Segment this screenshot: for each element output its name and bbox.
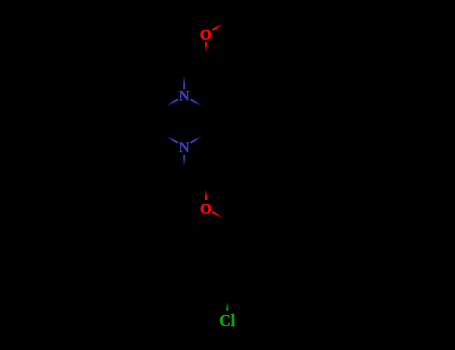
bond C11-C12 xyxy=(184,172,206,185)
bond N4-C11 xyxy=(183,155,185,172)
piperazine bond C6-C5 xyxy=(161,108,163,133)
bond C7-N1 xyxy=(183,71,185,90)
svg-text:O: O xyxy=(200,201,212,217)
bond C8-C7 xyxy=(184,58,206,71)
piperazine bond N1-C6 xyxy=(162,99,178,108)
benzene ring bond C19-C20 xyxy=(205,258,207,283)
bond O9-C8 xyxy=(205,42,207,58)
svg-text:Cl: Cl xyxy=(219,311,235,330)
benzene ring bond C17-C18 xyxy=(228,284,250,297)
benzene ring bond C15-C16 xyxy=(228,246,250,259)
piperazine bond N1-C2 xyxy=(191,99,207,108)
piperazine bond C2-C3 xyxy=(205,108,207,133)
svg-text:O: O xyxy=(200,28,212,44)
svg-text:N: N xyxy=(179,89,190,105)
bond C12-O13 xyxy=(205,184,207,200)
benzene ring bond C16-C17 xyxy=(248,258,250,283)
svg-text:N: N xyxy=(179,140,190,156)
piperazine bond C3-N4 xyxy=(191,134,207,143)
bond C10-O9 (methyl to methoxy O) xyxy=(212,21,227,30)
bond C14-C15 xyxy=(227,221,229,246)
bond C18-Cl xyxy=(226,296,228,310)
bond O13-C14 xyxy=(212,212,227,221)
benzene ring bond C18-C19 xyxy=(206,284,228,297)
piperazine bond C5-N4 xyxy=(162,134,178,143)
benzene ring bond C20-C15 xyxy=(206,246,228,259)
